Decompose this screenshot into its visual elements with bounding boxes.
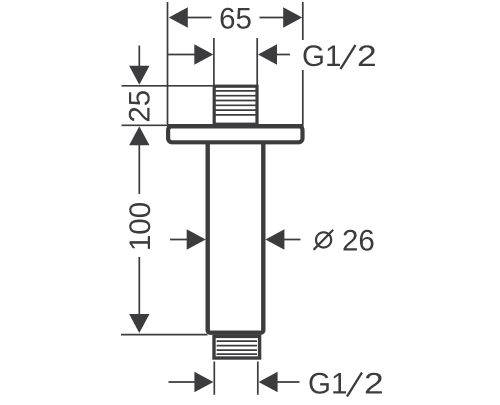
- dimension G1/2 top: right dimension line: [276, 54, 290, 56]
- dimension 65: left arrowhead: [169, 7, 188, 27]
- dimension G1/2 top: text mask: [300, 40, 380, 70]
- dimension G1/2 top: left extension line: [213, 38, 215, 87]
- svg-text:26: 26: [342, 225, 375, 258]
- dimension diameter 26: right dimension line: [283, 239, 301, 241]
- dimension diameter 26: left dimension line: [170, 239, 188, 241]
- dimension G1/2 top: text: [302, 40, 377, 73]
- dimension 65: right extension line: [302, 2, 304, 124]
- dimension G1/2 top: right arrowhead: [258, 44, 277, 64]
- dimension diameter 26: left arrowhead: [187, 229, 206, 249]
- svg-text:1: 1: [331, 368, 347, 401]
- svg-text:1: 1: [325, 40, 341, 73]
- dimension 65: right arrowhead: [283, 7, 302, 27]
- dimension G1/2 top: left dimension line: [168, 54, 196, 56]
- dimension 25: upper line with down arrowhead: [138, 46, 140, 68]
- dimension 25: extension line at thread top: [122, 85, 213, 87]
- svg-text:2: 2: [357, 40, 377, 73]
- dimension 65: left extension line: [167, 2, 169, 124]
- svg-text:65: 65: [219, 2, 252, 35]
- dimension 100: extension line at pipe bottom: [121, 334, 208, 336]
- dimension diameter 26: text: [314, 225, 375, 258]
- svg-text:G: G: [302, 40, 325, 73]
- dimension G1/2 top: right extension line: [256, 38, 258, 87]
- top thread G1/2: [214, 86, 257, 124]
- dimension diameter 26: right arrowhead: [265, 229, 284, 249]
- flange: [167, 124, 304, 142]
- svg-text:100: 100: [124, 202, 157, 251]
- dimension G1/2 bottom: right dimension line: [277, 381, 300, 383]
- dimension 65: right dimension line: [260, 17, 285, 19]
- dimension G1/2 bottom: left dimension line: [169, 381, 196, 383]
- dimension 100: lower line with down arrowhead: [138, 257, 140, 316]
- dimension G1/2 bottom: left extension line: [213, 362, 215, 395]
- svg-text:2: 2: [364, 367, 384, 400]
- pipe body: [208, 140, 264, 333]
- svg-text:25: 25: [124, 90, 157, 123]
- dimension 25: extension line at flange top: [122, 124, 169, 126]
- dimension G1/2 bottom: right extension line: [257, 362, 259, 395]
- dimension G1/2 top: left arrowhead: [194, 44, 213, 64]
- dimension 100: up arrowhead and upper line: [129, 126, 149, 145]
- dimension G1/2 bottom: right arrowhead: [259, 372, 278, 392]
- svg-text:G: G: [308, 368, 331, 401]
- bottom thread G1/2: [214, 336, 260, 358]
- dimension 65: left dimension line: [186, 17, 212, 19]
- dimension G1/2 bottom: left arrowhead: [194, 372, 213, 392]
- dimension G1/2 bottom: text: [308, 367, 384, 400]
